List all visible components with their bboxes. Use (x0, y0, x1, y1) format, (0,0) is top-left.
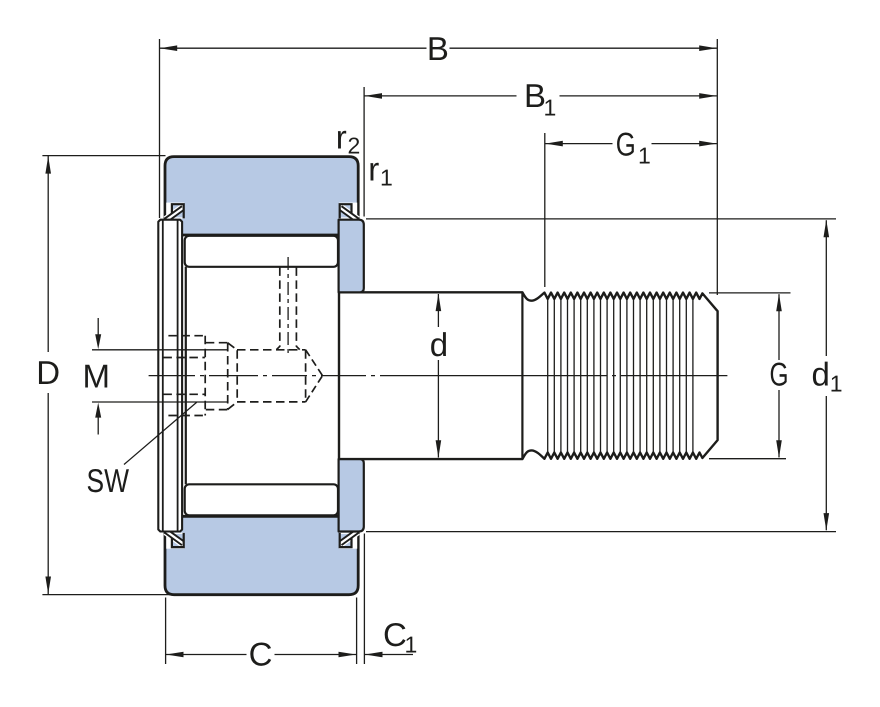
svg-text:D: D (36, 354, 60, 391)
washer inner wall line left (162, 220, 164, 530)
svg-text:G: G (770, 355, 789, 392)
hidden chamfer top (228, 343, 238, 350)
svg-text:G: G (616, 125, 636, 162)
svg-text:1: 1 (638, 143, 651, 169)
dimension d1 line (825, 220, 827, 356)
hidden hex socket start wall (236, 350, 238, 401)
dimension d line (437, 294, 439, 327)
svg-text:r: r (368, 151, 379, 188)
seal detail bottom-right (mirror) (339, 531, 359, 549)
stud flange block upper (blue) (339, 220, 364, 293)
hidden hex socket end wall (305, 350, 307, 401)
thread flank lines (548, 299, 693, 453)
hidden lube hole wall left (277, 267, 280, 349)
svg-text:C: C (383, 616, 407, 653)
hidden hole end wall (204, 336, 206, 416)
hidden thread hole outer line bottom (168, 415, 204, 417)
stud left face line behind washer gap (185, 267, 187, 485)
side washer plate (left) (158, 220, 182, 532)
dimension C line (166, 654, 247, 656)
dimension C1 arrow (365, 654, 413, 656)
dimension d1 extension line top (366, 218, 836, 220)
seal detail top-right (mirror) (339, 203, 359, 221)
outer ring lower section (blue) (165, 516, 358, 594)
thread undercut groove edge line (521, 293, 523, 458)
leader line SW (124, 402, 197, 464)
hidden hex socket flat top (237, 349, 306, 351)
dimension D extension line top (42, 155, 165, 157)
hidden counterbore line top (206, 342, 228, 344)
washer inner wall line right (177, 220, 179, 530)
dimension G1 line (545, 143, 612, 145)
dimension B1 line (364, 95, 516, 97)
dimension M extension line top (92, 349, 228, 351)
lubrication hole vertical centerline (287, 257, 289, 357)
outer ring upper section (blue) (165, 157, 358, 235)
dimension G1 extension line left (544, 133, 546, 287)
dimension B1 extension line left (363, 87, 365, 217)
dimension C1 extension line (363, 534, 365, 665)
dimension M arrow top (97, 318, 99, 336)
dimension G line (778, 294, 780, 360)
svg-text:1: 1 (380, 165, 393, 191)
seal detail top-left (165, 203, 185, 221)
dimension D line (47, 156, 49, 352)
main horizontal centerline (149, 375, 728, 377)
svg-text:1: 1 (405, 632, 418, 658)
hidden pilot hole line bottom (163, 393, 205, 395)
svg-text:d: d (812, 356, 830, 393)
needle roller upper (185, 236, 338, 267)
needle roller lower (185, 484, 338, 515)
hidden drill cone top (306, 350, 323, 376)
stud flange block lower (blue) (339, 459, 364, 531)
hidden lube hole wall right (296, 267, 299, 349)
svg-text:B: B (427, 30, 449, 67)
svg-text:C: C (249, 635, 273, 672)
dimension M arrow bottom (97, 416, 99, 435)
hidden thread hole outer line top (168, 335, 204, 337)
dimension C extension line right (356, 598, 358, 665)
dimension B extension line left (159, 39, 161, 218)
dimension d1 extension line bottom (366, 531, 836, 533)
svg-text:1: 1 (544, 95, 557, 121)
hidden drill cone bottom (306, 376, 323, 402)
svg-text:SW: SW (87, 462, 130, 499)
svg-text:d: d (430, 326, 448, 363)
hidden pilot hole line top (163, 357, 205, 359)
dimension D extension line bottom (42, 594, 172, 596)
dimension M extension line bottom (92, 401, 228, 403)
svg-text:r: r (336, 119, 347, 156)
hidden counterbore line bottom (206, 409, 228, 411)
seal detail bottom-left (mirror) (165, 531, 185, 549)
dimension G extension line bottom (709, 458, 786, 460)
hidden chamfer bottom (228, 402, 238, 410)
svg-text:2: 2 (348, 133, 361, 159)
svg-text:1: 1 (830, 371, 843, 397)
hidden counterbore end wall (227, 343, 229, 409)
threaded stud shaft (339, 292, 718, 459)
dimension B line (160, 47, 427, 49)
hidden hex socket flat bottom (237, 401, 306, 403)
svg-text:M: M (82, 358, 110, 395)
dimension C extension line left (165, 598, 167, 665)
dimension G extension line top (709, 292, 791, 294)
dimension B extension line right (716, 39, 718, 295)
